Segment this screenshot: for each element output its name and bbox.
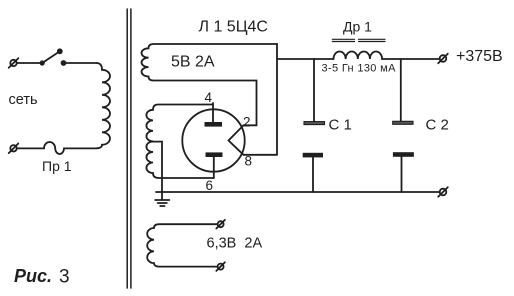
svg-text:4: 4 <box>205 90 213 105</box>
tube anode plate bottom <box>206 152 223 157</box>
HV winding center tap wire to ground <box>153 142 162 200</box>
tube anode plate top <box>205 122 223 127</box>
tube U1 envelope <box>182 109 244 171</box>
terminal 6.3V top <box>216 220 225 229</box>
wire switch to primary winding <box>65 62 97 64</box>
svg-text:Пр 1: Пр 1 <box>42 158 72 174</box>
capacitor C2 bottom plate <box>393 152 414 157</box>
svg-text:Др 1: Др 1 <box>343 19 372 35</box>
transformer winding 5V (5В 2А) <box>142 44 278 125</box>
svg-text:3-5 Гн 130 мА: 3-5 Гн 130 мА <box>322 63 397 75</box>
svg-text:Рис.: Рис. <box>14 266 52 286</box>
fuse Пр1 <box>17 142 97 154</box>
terminal X1 (mains top) <box>9 58 19 68</box>
svg-text:+375В: +375В <box>456 48 503 65</box>
svg-text:3: 3 <box>59 267 70 288</box>
transformer core <box>127 9 131 288</box>
svg-text:сеть: сеть <box>9 92 38 108</box>
wire pin 8 to filament supply <box>244 154 278 156</box>
svg-text:5В 2А: 5В 2А <box>171 54 215 71</box>
svg-text:2: 2 <box>243 115 251 130</box>
svg-text:8: 8 <box>245 154 253 169</box>
terminal 6.3V bottom <box>216 262 225 271</box>
ground <box>155 200 169 206</box>
terminal bottom right <box>438 187 448 197</box>
switch S1 <box>41 49 66 65</box>
choke core bars <box>332 39 385 41</box>
transformer winding HV (anode winding) <box>146 105 213 179</box>
wire vertical cathode output <box>276 44 278 155</box>
svg-text:Л 1 5Ц4С: Л 1 5Ц4С <box>199 19 268 36</box>
terminal +375V <box>438 54 448 64</box>
bottom common rail <box>156 191 440 193</box>
svg-text:С 1: С 1 <box>329 117 352 134</box>
+B rail with choke Др1 <box>277 51 440 59</box>
transformer T1 primary winding <box>97 63 111 148</box>
tube anode lead pin 4 <box>212 103 214 122</box>
wire mains top to switch <box>17 62 42 64</box>
transformer winding 6.3V <box>147 224 217 266</box>
capacitor C2 top plate <box>400 59 402 121</box>
capacitor C1 top plate <box>313 59 315 122</box>
svg-text:С 2: С 2 <box>426 117 449 134</box>
terminal X2 (mains bottom) <box>9 144 19 154</box>
tube filament <box>229 125 244 155</box>
capacitor C1 bottom plate <box>303 153 323 158</box>
tube anode lead pin 6 <box>213 157 215 178</box>
svg-text:6: 6 <box>206 178 214 193</box>
svg-text:6,3В 2А: 6,3В 2А <box>207 236 263 252</box>
